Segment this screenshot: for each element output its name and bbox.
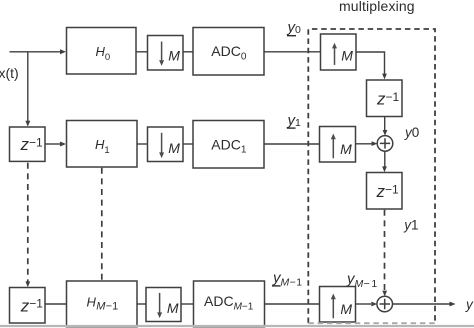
- dashed wire z-1 row2 to z-1 row3: [27, 163, 29, 282]
- bottom gray rule: [0, 325, 474, 327]
- adder1 plus: [380, 138, 390, 148]
- upsample arrow row2: [332, 139, 334, 158]
- arrowhead output y: [450, 302, 456, 307]
- arrowhead into z-1 row3: [25, 281, 30, 287]
- adder1: [377, 136, 393, 152]
- wire H M-1 to downsampler row3: [137, 303, 146, 305]
- wire z-1 A to adder1: [384, 117, 386, 131]
- block z-1 B: [367, 173, 403, 210]
- block downsampler M row3: [146, 288, 181, 322]
- arrowhead into adder3 left: [371, 302, 377, 307]
- wire z3 to H M-1: [45, 303, 67, 305]
- upsample arrowhead row2: [331, 134, 336, 140]
- dashed wire H1 to H M-1: [101, 168, 103, 281]
- wire ADC0 to upsampler row1: [264, 51, 321, 53]
- wire adder1 to z-1 B: [384, 151, 386, 168]
- block H0: [67, 28, 137, 75]
- arrowhead into adder1 left: [372, 141, 378, 146]
- downsample arrow row3: [159, 293, 161, 313]
- arrowhead into z-1 A: [382, 74, 387, 80]
- wire input x(t) to H0: [10, 51, 61, 53]
- upsample arrowhead row1: [332, 43, 337, 49]
- wire z-1 row2 to H1: [45, 143, 61, 145]
- svg-text:y1: y1: [403, 217, 418, 232]
- svg-text:M: M: [340, 141, 352, 157]
- arrowhead into z-1 row2: [25, 121, 30, 127]
- svg-text:M: M: [340, 301, 352, 317]
- wire ADC1 to upsampler row2: [264, 143, 320, 145]
- block H M-1: [67, 281, 138, 327]
- dashed multiplexing region bottom (light): [308, 322, 435, 324]
- downsample arrow row1: [161, 42, 163, 62]
- block downsampler M row2: [148, 127, 184, 162]
- svg-text:M: M: [341, 48, 353, 64]
- svg-text:multiplexing: multiplexing: [339, 0, 415, 14]
- wire downsampler to ADC0: [183, 51, 193, 53]
- dashed wire z-1 B to adder3: [384, 210, 386, 291]
- arrowhead into H0: [60, 49, 66, 54]
- wire downsampler to ADC M-1: [181, 303, 194, 305]
- wire ADC M-1 to upsampler row3: [265, 303, 320, 305]
- upsample arrow row3: [332, 299, 334, 319]
- wire H1 to downsampler row2: [137, 143, 148, 145]
- wire H0 to downsampler row1: [136, 51, 148, 53]
- wire upsampler row3 to adder3: [356, 303, 372, 305]
- block ADC M-1: [194, 281, 265, 327]
- arrowhead into adder1 top: [383, 130, 388, 136]
- block H1: [67, 121, 138, 168]
- wire branch down to z-1 row2: [27, 52, 29, 122]
- svg-text:M: M: [167, 300, 179, 316]
- svg-text:x(t): x(t): [0, 65, 19, 81]
- block upsampler M row1: [321, 34, 357, 70]
- block z-1 A: [367, 80, 403, 117]
- upsample arrowhead row3: [331, 294, 336, 300]
- svg-text:y: y: [465, 297, 474, 312]
- wire downsampler to ADC1: [183, 143, 193, 145]
- wire upsampler row1 to z-1 A: [356, 52, 385, 75]
- wire adder3 to output y: [392, 303, 450, 305]
- block upsampler M row3: [320, 287, 356, 323]
- block z-1 row3: [10, 288, 46, 324]
- block ADC1: [193, 121, 264, 169]
- downsample arrowhead row3: [157, 312, 162, 318]
- block ADC0: [193, 28, 264, 76]
- arrowhead into H1: [60, 142, 66, 147]
- adder3 plus: [380, 299, 390, 309]
- downsample arrow row2: [161, 133, 163, 153]
- block downsampler M row1: [148, 36, 184, 71]
- dashed multiplexing region left/top/right: [308, 29, 435, 323]
- svg-text:y0: y0: [404, 125, 419, 140]
- arrowhead into z-1 B: [382, 166, 387, 172]
- adder3: [377, 296, 393, 312]
- block upsampler M row2: [320, 127, 356, 163]
- svg-text:M: M: [168, 48, 180, 64]
- arrowhead into adder3 top: [382, 291, 387, 297]
- downsample arrowhead row1: [159, 60, 164, 66]
- upsample arrow row1: [334, 48, 336, 65]
- wire upsampler row2 to adder1: [356, 143, 373, 145]
- downsample arrowhead row2: [159, 152, 164, 158]
- block z-1 row2: [10, 127, 46, 161]
- svg-text:M: M: [168, 140, 180, 156]
